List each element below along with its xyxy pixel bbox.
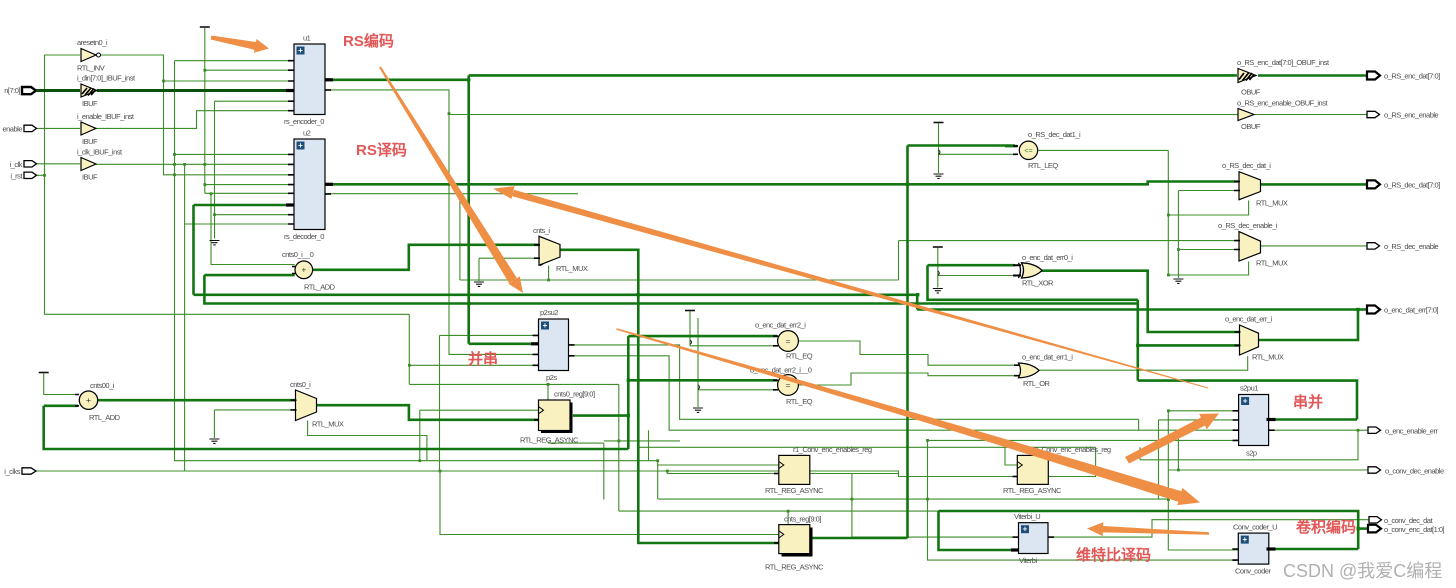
svg-text:o_enc_dat_err1_i: o_enc_dat_err1_i — [1022, 353, 1073, 362]
svg-text:Viterbi: Viterbi — [1019, 556, 1037, 565]
op RTL_EQ o_enc_dat_err2_i — [755, 321, 813, 361]
svg-text:o_RS_dec_dat_i: o_RS_dec_dat_i — [1222, 161, 1271, 170]
svg-text:Viterbi_U: Viterbi_U — [1014, 512, 1040, 521]
svg-text:=: = — [786, 380, 791, 390]
svg-text:cnts_i: cnts_i — [533, 226, 550, 235]
wire EQ2 in1 — [628, 379, 777, 382]
output port o_RS_dec_enable — [1367, 242, 1439, 251]
op RTL_ADD cnts0_i__0 — [282, 250, 336, 292]
svg-text:o_RS_enc_dat[7:0]_OBUF_inst: o_RS_enc_dat[7:0]_OBUF_inst — [1237, 58, 1330, 67]
svg-text:i_clk: i_clk — [9, 160, 22, 169]
svg-text:cnts0_i: cnts0_i — [290, 380, 311, 389]
wire vertical x603 — [548, 430, 649, 499]
register RTL_REG_ASYNC r2_Conv_enc_enables_reg — [1003, 445, 1111, 495]
register RTL_REG_ASYNC cnts0_reg[9:0] (with shadow) — [520, 390, 595, 445]
wire err mux out — [1258, 310, 1358, 341]
svg-text:o_RS_dec_enable: o_RS_dec_enable — [1384, 242, 1439, 251]
buffer OBUF o_RS_enc_dat (hatched) — [1237, 58, 1330, 97]
arrow to viterbi (head left) — [1087, 522, 1209, 536]
svg-text:cnts0_reg[9:0]: cnts0_reg[9:0] — [554, 390, 595, 399]
svg-text:rs_decoder_0: rs_decoder_0 — [284, 232, 324, 241]
wire cnts0_i out to cnts0_reg — [316, 405, 539, 420]
svg-text:+: + — [298, 141, 303, 150]
wire i_clk trunk down — [184, 164, 186, 471]
output port o_enc_enable_err — [1368, 427, 1438, 436]
svg-text:o_conv_dec_dat: o_conv_dec_dat — [1384, 516, 1433, 525]
wire u2 pin1 branch — [175, 153, 295, 155]
buffer IBUF i_clk — [77, 148, 123, 182]
wire p2s area aux — [409, 384, 938, 524]
wire u2 out2 to RTL_ADD in1 — [211, 194, 295, 265]
input port enable — [2, 125, 36, 134]
wire XOR corner — [928, 265, 1138, 300]
svg-text:s2pu1: s2pu1 — [1240, 384, 1258, 393]
output port o_RS_enc_dat[7:0] — [1367, 72, 1440, 81]
svg-text:RTL_INV: RTL_INV — [77, 64, 105, 73]
power P5 XOR — [933, 246, 943, 248]
svg-text:RTL_ADD: RTL_ADD — [89, 413, 121, 422]
ground G1 below u2 — [210, 241, 220, 245]
input port i_clks — [4, 467, 36, 476]
svg-text:n[7:0]: n[7:0] — [4, 86, 20, 95]
wire s2p out thick loop — [1138, 381, 1357, 420]
wire p2s out2 to s2p in3 row — [568, 356, 1238, 430]
wire EQ1 out to OR in1 — [798, 341, 1019, 365]
svg-text:RTL_REG_ASYNC: RTL_REG_ASYNC — [765, 486, 824, 495]
svg-text:o_RS_enc_enable_OBUF_inst: o_RS_enc_enable_OBUF_inst — [1237, 99, 1328, 108]
svg-text:RTL_MUX: RTL_MUX — [1256, 199, 1288, 208]
wire cnts0_reg clk — [420, 335, 539, 471]
op RTL_LEQ o_RS_dec_dat1_i — [1013, 130, 1081, 170]
wire s2p out2 to port o_enc_enable_err — [1269, 429, 1368, 431]
wire aresetn long row — [45, 314, 539, 384]
wire i_clk port to IBUF — [35, 163, 80, 165]
svg-text:enable: enable — [2, 125, 22, 134]
arrow down to serial (head bottom-right) — [379, 67, 523, 293]
wire XOR out to err mux in1 — [1040, 271, 1239, 332]
wire RS_dec const net to gnd — [1178, 191, 1238, 471]
wire p2s out1 to s2p in2 row — [568, 345, 1238, 499]
mux RTL_MUX o_enc_dat_err_i — [1225, 315, 1284, 362]
wire right trunk x1168 — [1168, 150, 1238, 550]
wire o_conv_dec_enable — [1168, 469, 1368, 471]
svg-text:IBUF: IBUF — [82, 99, 98, 108]
junction dots — [467, 78, 470, 81]
wire s2p in1 — [1168, 410, 1238, 412]
svg-text:cnts0_i__0: cnts0_i__0 — [282, 250, 314, 259]
buffer IBUF i_enable — [77, 112, 135, 146]
svg-text:Conv_coder_U: Conv_coder_U — [1233, 523, 1277, 532]
wire i_clks to r2 — [667, 471, 1017, 477]
wire to viterbi in1 — [852, 474, 1019, 538]
wire OR out to err mux select — [1039, 356, 1248, 370]
svg-text:+: + — [1023, 525, 1028, 534]
arrow to s2p (head up-right) — [1125, 414, 1219, 464]
wire i_rst port stub — [35, 174, 45, 176]
power P2 cnts00 — [39, 372, 49, 374]
ground G5 LEQ — [934, 174, 944, 178]
svg-text:RTL_XOR: RTL_XOR — [1022, 279, 1054, 288]
wire cnts00 out to cnts0_i — [98, 399, 295, 402]
svg-text:RS译码: RS译码 — [356, 142, 407, 159]
svg-text:o_RS_dec_dat[7:0]: o_RS_dec_dat[7:0] — [1384, 181, 1440, 190]
svg-text:+: + — [543, 321, 548, 330]
wire u1 out1 bus — [325, 79, 469, 82]
wire XOR in2 from supply — [938, 248, 1017, 288]
svg-text:RTL_MUX: RTL_MUX — [312, 420, 344, 429]
wire u2 out2 join select row — [459, 194, 461, 280]
input port i_rst — [10, 172, 36, 181]
power P1 top — [200, 26, 210, 28]
wire OBUF2 out to port — [1255, 114, 1367, 116]
block Conv_coder_U Conv_coder — [1232, 523, 1277, 576]
block s2pu1 s2p — [1233, 384, 1276, 458]
wire to p2s in2 — [469, 342, 539, 345]
svg-text:o_enc_dat_err[7:0]: o_enc_dat_err[7:0] — [1384, 306, 1438, 315]
inverter RTL_INV aresetn0_i — [77, 38, 108, 73]
wire s2p in4 row — [928, 440, 1239, 560]
wire err bus y309.5 — [917, 308, 1367, 311]
svg-text:串并: 串并 — [1293, 393, 1323, 411]
svg-text:RTL_MUX: RTL_MUX — [1252, 353, 1284, 362]
output port o_enc_dat_err[7:0] — [1367, 306, 1438, 315]
svg-text:RTL_MUX: RTL_MUX — [556, 264, 588, 273]
wire o_RS_dec_enable out — [1260, 245, 1367, 247]
wire u2 pin5 branch — [205, 192, 294, 194]
wire LEQ in2 from supply — [939, 124, 1019, 174]
output port o_conv_dec_enable — [1368, 467, 1444, 476]
svg-text:o_enc_enable_err: o_enc_enable_err — [1385, 427, 1438, 436]
svg-text:OBUF: OBUF — [1241, 122, 1261, 131]
ground G3 cnts0_i — [209, 439, 219, 443]
input port i_clk — [9, 160, 36, 169]
output port o_RS_dec_dat[7:0] — [1367, 180, 1440, 189]
svg-text:IBUF: IBUF — [82, 173, 98, 182]
wire u2 out2 row — [325, 193, 578, 195]
svg-text:+: + — [1242, 535, 1247, 544]
svg-text:RTL_MUX: RTL_MUX — [1256, 259, 1288, 268]
ground G2 cnts_i — [474, 282, 484, 286]
wire u1 pin1 net and left trunk — [175, 61, 779, 465]
junction dots thin — [448, 112, 451, 115]
wire mux1 select — [1168, 201, 1248, 216]
wire RTL_ADD out to cnts_i — [313, 245, 539, 270]
block u1 rs_encoder_0 — [284, 34, 333, 127]
wire u2 pin4 branch — [205, 184, 294, 186]
svg-text:+: + — [86, 395, 91, 405]
wire EQ1 in1 — [628, 335, 777, 338]
svg-text:o_conv_enc_dat[1:0]: o_conv_enc_dat[1:0] — [1384, 525, 1445, 534]
svg-text:+: + — [298, 46, 303, 55]
block u2 rs_decoder_0 — [284, 129, 333, 242]
output port o_conv_dec_dat — [1369, 516, 1433, 525]
wire EQ2 out to OR in2 — [798, 373, 1019, 385]
svg-text:r1_Conv_enc_enables_reg: r1_Conv_enc_enables_reg — [793, 445, 872, 454]
wire viterbi out to o_conv_dec_dat — [1048, 520, 1369, 537]
svg-text:i_enable_IBUF_inst: i_enable_IBUF_inst — [77, 112, 135, 121]
svg-text:RTL_REG_ASYNC: RTL_REG_ASYNC — [520, 436, 579, 445]
mux RTL_MUX o_RS_dec_dat_i — [1222, 161, 1288, 208]
input port n[7:0] — [4, 86, 294, 95]
power P4 LEQ — [934, 122, 944, 124]
block p2su2 p2s — [531, 308, 575, 382]
arrow RS decode pointer (long, head at left) — [493, 186, 1208, 388]
ground G4 eq area — [693, 408, 703, 412]
wire cnts0_i in2 from gnd — [214, 410, 295, 438]
output port o_RS_enc_enable — [1367, 111, 1439, 120]
wire u2out1 to RS_dec mux — [908, 182, 1239, 185]
register RTL_REG_ASYNC cnts_reg[9:0] (with shadow) — [765, 515, 824, 572]
wire RS_dec_dat mux out — [1260, 183, 1367, 186]
ground G6 XOR — [933, 289, 943, 293]
wire cnts_i select row — [460, 241, 899, 280]
svg-text:RTL_EQ: RTL_EQ — [786, 352, 813, 361]
wire i_clks to cnts_reg clk — [440, 471, 779, 535]
svg-text:aresetn0_i: aresetn0_i — [77, 38, 108, 47]
wire trunk x907 down — [810, 184, 908, 538]
svg-text:<=: <= — [1024, 148, 1032, 155]
wire r2 in1 — [1005, 447, 1017, 465]
arrow long to s2p corner (head at right-bottom) — [616, 328, 1200, 505]
svg-text:p2su2: p2su2 — [540, 308, 558, 317]
svg-text:+: + — [1243, 397, 1248, 406]
wire EQ2 in2 to gnd — [698, 318, 777, 407]
svg-text:+: + — [301, 266, 306, 275]
wire OBUF1 out — [1258, 74, 1367, 77]
svg-text:RTL_REG_ASYNC: RTL_REG_ASYNC — [1003, 486, 1062, 495]
wire thick row y303.5 — [204, 275, 1137, 303]
buffer IBUF i_din (hatched) — [77, 74, 136, 109]
svg-text:o_RS_dec_dat1_i: o_RS_dec_dat1_i — [1028, 130, 1081, 139]
svg-text:i_din[7:0]_IBUF_inst: i_din[7:0]_IBUF_inst — [77, 74, 136, 83]
wire i_enable IBUF out to u1 pin6 — [96, 111, 294, 129]
block Viterbi_U Viterbi — [1011, 512, 1054, 565]
wire RTL_ADD in2 — [204, 274, 294, 277]
wire i_clks row — [36, 471, 779, 474]
wire enable port to IBUF — [35, 127, 80, 129]
mux RTL_MUX cnts_i — [533, 226, 588, 273]
svg-text:RTL_OR: RTL_OR — [1023, 379, 1051, 388]
op RTL_EQ o_enc_dat_err2_i__0 — [750, 366, 813, 407]
wire cnts0_i select — [308, 421, 427, 461]
wire conv coder loop to viterbi — [939, 511, 1359, 550]
svg-text:cnts_reg[9:0]: cnts_reg[9:0] — [784, 515, 821, 524]
svg-text:i_rst: i_rst — [10, 172, 23, 181]
svg-text:Conv_coder: Conv_coder — [1235, 567, 1271, 576]
wire o_conv_enc_dat port stub — [1358, 527, 1368, 530]
gate RTL_OR o_enc_dat_err1_i — [1014, 353, 1073, 389]
svg-text:RTL_ADD: RTL_ADD — [304, 283, 336, 292]
power P3 eq — [685, 310, 695, 312]
wire u1 out2 enable net to OBUF2 — [325, 90, 1238, 115]
svg-text:u2: u2 — [303, 129, 311, 138]
svg-text:o_RS_enc_dat[7:0]: o_RS_enc_dat[7:0] — [1384, 72, 1440, 81]
svg-text:o_enc_dat_err_i: o_enc_dat_err_i — [1225, 315, 1273, 324]
gate RTL_XOR o_enc_dat_err0_i — [1013, 253, 1073, 288]
wire u2out1 to LEQ — [908, 146, 1016, 185]
svg-text:rs_encoder_0: rs_encoder_0 — [284, 117, 324, 126]
wire u1 pin2 net from power — [205, 28, 294, 193]
buffer OBUF o_RS_enc_enable — [1237, 99, 1328, 132]
wire LEQ in1 stub — [1005, 145, 1018, 148]
svg-text:卷积编码: 卷积编码 — [1295, 518, 1356, 536]
svg-text:=: = — [786, 336, 791, 346]
wire cnts_i out trunk — [560, 250, 779, 543]
wire y499 row — [658, 465, 1169, 499]
svg-text:CSDN @我爱C编程: CSDN @我爱C编程 — [1283, 561, 1442, 581]
arrow small top-left — [211, 36, 269, 53]
svg-text:u1: u1 — [303, 34, 311, 43]
svg-text:o_conv_dec_enable: o_conv_dec_enable — [1385, 467, 1444, 476]
svg-text:并串: 并串 — [468, 350, 498, 368]
svg-text:o_enc_dat_err0_i: o_enc_dat_err0_i — [1022, 253, 1073, 262]
svg-text:i_clks: i_clks — [4, 467, 21, 476]
wire aresetn net vertical — [45, 55, 81, 315]
svg-text:RTL_REG_ASYNC: RTL_REG_ASYNC — [765, 563, 824, 572]
svg-text:RTL_EQ: RTL_EQ — [786, 397, 813, 406]
svg-text:OBUF: OBUF — [1241, 88, 1261, 97]
mux RTL_MUX o_RS_dec_enable_i — [1218, 221, 1288, 268]
svg-text:i_clk_IBUF_inst: i_clk_IBUF_inst — [77, 148, 123, 157]
wire enable net down to p2s pin3 — [449, 115, 539, 355]
register RTL_REG_ASYNC r1_Conv_enc_enables_reg — [765, 445, 872, 495]
svg-text:IBUF: IBUF — [82, 137, 98, 146]
wire cnts_i in2 from gnd — [479, 258, 539, 281]
wire u1 pin5 net trunk — [215, 101, 295, 238]
op RTL_ADD cnts00_i — [75, 381, 121, 422]
svg-text:维特比译码: 维特比译码 — [1076, 546, 1151, 564]
wire LEQ out to right trunk — [1038, 149, 1168, 151]
svg-text:RTL_LEQ: RTL_LEQ — [1028, 161, 1058, 170]
wire EQ1 in2 from supply — [690, 312, 777, 346]
svg-text:cnts00_i: cnts00_i — [90, 381, 115, 390]
wire r1 out to r2 — [810, 473, 899, 475]
wire i_clk net row to u2 — [96, 163, 294, 165]
wire thick row y294.8 — [194, 295, 918, 310]
svg-text:p2s: p2s — [546, 373, 557, 382]
wire cnts0_reg out trunk — [573, 336, 629, 449]
mux RTL_MUX cnts0_i — [290, 380, 344, 429]
wire mux2 in1 long — [899, 240, 1239, 242]
wire r2 out feedback — [638, 430, 1358, 476]
output port o_conv_enc_dat[1:0] — [1368, 525, 1445, 534]
svg-text:o_RS_enc_enable: o_RS_enc_enable — [1384, 111, 1439, 120]
svg-text:o_RS_dec_enable_i: o_RS_dec_enable_i — [1218, 221, 1278, 230]
wire RTL_INV output to u1 pin3 and u2 pin3 — [101, 55, 295, 175]
wire cnts00 in1 from supply — [44, 374, 78, 395]
svg-text:o_enc_dat_err2_i: o_enc_dat_err2_i — [755, 321, 806, 330]
wire u2 pin8 branch — [185, 223, 294, 225]
wire RS_enc_dat trunk — [469, 75, 1237, 343]
ground G7 RS_dec mux — [1173, 279, 1183, 283]
wire u2 bus pin5 — [194, 205, 295, 295]
svg-text:s2p: s2p — [1246, 449, 1257, 458]
wire mux2 select — [1168, 262, 1248, 276]
wire err mux in2 vertical — [1138, 300, 1239, 381]
wire cnts00 loop — [44, 406, 629, 449]
wire u2 out1 bus — [325, 183, 908, 186]
bundle tick marks — [540, 150, 940, 389]
svg-text:RS编码: RS编码 — [343, 32, 394, 50]
